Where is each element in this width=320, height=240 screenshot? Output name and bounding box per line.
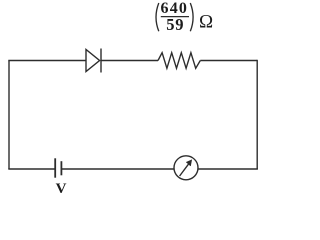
wire galvanometer to battery <box>61 168 174 170</box>
wire diode to resistor <box>101 60 158 62</box>
right parenthesis <box>190 3 193 31</box>
diode D1 <box>86 49 101 73</box>
svg-text:Ω: Ω <box>199 11 213 32</box>
resistor R1 <box>158 53 200 69</box>
svg-text:V: V <box>56 181 67 194</box>
svg-text:59: 59 <box>166 15 184 34</box>
battery V (left long plate) <box>54 158 56 177</box>
wire bottom-right segment <box>198 168 258 170</box>
value label (640/59) ohm <box>156 0 213 34</box>
wire battery to bottom-left corner <box>8 168 55 170</box>
left parenthesis <box>156 3 159 31</box>
wire top-left segment <box>8 60 86 62</box>
wire right vertical side <box>256 60 258 169</box>
battery V (right short plate) <box>60 161 62 175</box>
fraction bar <box>161 16 189 18</box>
galvanometer G1 <box>174 156 198 180</box>
wire resistor to top-right corner <box>200 60 257 62</box>
wire left vertical side <box>8 61 10 170</box>
